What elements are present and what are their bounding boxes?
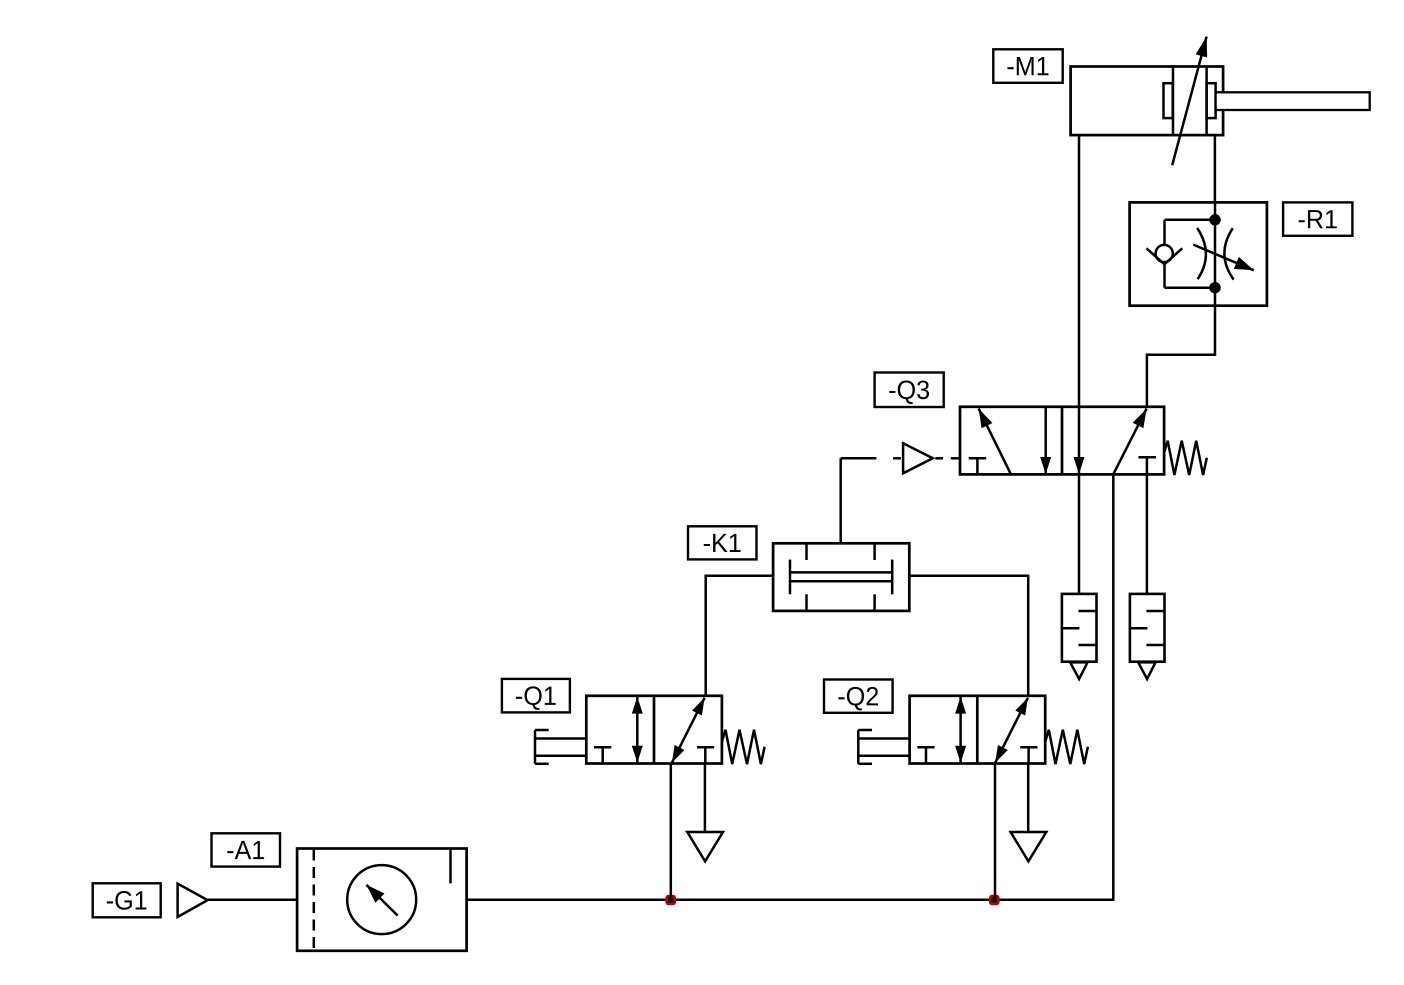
wire K1 right output over and down to Q2 output port [909, 576, 1028, 696]
wire K1 output up to pilot corner [839, 458, 842, 543]
label -A1 [212, 833, 281, 866]
valve Q2 right-position blocked port [1020, 747, 1037, 763]
label -Q2 [824, 680, 893, 713]
wire G1 to A1 [208, 899, 298, 902]
silencer S1 [1062, 594, 1097, 679]
valve Q1 right-position blocked port [697, 747, 714, 763]
cylinder M1 adjustable cushioning arrow [1172, 37, 1207, 166]
wire Q2 exhaust port [1027, 764, 1030, 833]
valve Q1 left-position blocked port [594, 747, 611, 763]
junction node under Q1 [665, 895, 676, 906]
air source G1 [178, 884, 208, 917]
valve Q1 return spring [722, 730, 765, 764]
wire Q3 output to cylinder M1 left port [1078, 135, 1081, 407]
service unit A1 body [297, 849, 467, 951]
valve Q3 right-position down arrow [1074, 407, 1085, 474]
valve Q3 right-position blocked port [1138, 457, 1156, 474]
label -Q3 [875, 373, 944, 408]
wire cylinder M1 right port to R1 [1214, 135, 1217, 202]
valve Q2 manual actuator [858, 730, 909, 764]
wire Q3 port to silencer 2 [1146, 474, 1149, 594]
valve Q1 body [586, 696, 722, 764]
valve Q2 left-position blocked port [917, 747, 934, 763]
pilot line dashes to Q3 [841, 457, 960, 460]
valve Q2 left-position arrow [955, 697, 966, 763]
wire Q1 exhaust port [704, 764, 707, 833]
valve Q1 left-position arrow [632, 697, 643, 763]
valve Q3 left-position down arrow [1040, 407, 1051, 474]
cylinder M1 body [1071, 67, 1224, 136]
cylinder M1 piston [1164, 67, 1216, 136]
wire supply riser to valve Q3 port 1 [1112, 474, 1115, 899]
valve Q1 right-position flow arrow [672, 698, 705, 763]
wire Q3 port to silencer 1 [1078, 474, 1081, 594]
pressure gauge of A1 [347, 865, 416, 934]
label -R1 [1283, 202, 1352, 235]
valve Q3 right-position diagonal arrow [1113, 409, 1146, 475]
label -G1 [93, 883, 161, 917]
exhaust outlet under Q1 [687, 832, 723, 861]
wire Q3 output up to flow control R1 [1147, 306, 1215, 407]
wire Q2 supply port down to manifold [994, 764, 997, 900]
cylinder M1 piston rod [1216, 92, 1370, 110]
label -K1 [688, 526, 757, 559]
junction node under Q2 [989, 895, 1000, 906]
valve Q3 left-position diagonal arrow [979, 409, 1011, 475]
valve Q3 return spring [1164, 441, 1207, 475]
two-pressure valve K1 [773, 543, 909, 611]
flow control valve R1 [1130, 202, 1267, 305]
exhaust outlet under Q2 [1011, 832, 1047, 861]
wire supply manifold from A1 to riser corner [467, 899, 1115, 902]
label -Q1 [502, 679, 570, 713]
valve Q2 body [910, 696, 1046, 764]
pneumatic pilot actuator of Q3 [903, 443, 933, 473]
wire Q1 supply port down to manifold [670, 764, 673, 900]
valve Q3 body [960, 407, 1164, 475]
wire Q1 output up and to K1 left input [706, 576, 773, 696]
label -M1 [993, 49, 1062, 83]
valve Q2 right-position flow arrow [995, 698, 1028, 763]
silencer S2 [1130, 594, 1165, 679]
valve Q2 return spring [1045, 730, 1088, 764]
valve Q1 manual actuator [535, 730, 586, 764]
valve Q3 left-position pilot-side blocked port [969, 458, 987, 474]
